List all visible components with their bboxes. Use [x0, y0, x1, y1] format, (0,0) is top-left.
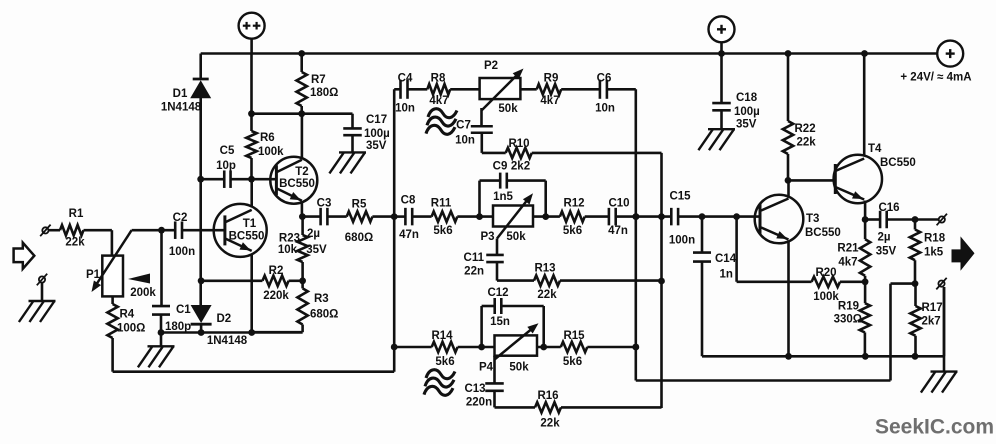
svg-text:R5: R5 [352, 199, 367, 211]
svg-text:100µ: 100µ [734, 106, 760, 118]
svg-text:R8: R8 [431, 73, 446, 85]
svg-text:100n: 100n [169, 246, 195, 258]
svg-text:R11: R11 [431, 198, 452, 210]
svg-text:C16: C16 [878, 202, 899, 214]
svg-text:P4: P4 [479, 362, 494, 374]
svg-text:35V: 35V [736, 119, 757, 131]
svg-text:1N4148: 1N4148 [207, 335, 248, 347]
svg-text:C15: C15 [669, 191, 691, 203]
svg-text:C1: C1 [176, 304, 191, 316]
svg-text:C3: C3 [317, 198, 332, 210]
svg-text:100µ: 100µ [364, 128, 390, 140]
svg-text:C7: C7 [456, 120, 471, 132]
svg-text:R16: R16 [537, 390, 558, 402]
svg-text:BC550: BC550 [805, 227, 841, 239]
svg-text:10n: 10n [595, 103, 615, 115]
svg-text:C17: C17 [366, 114, 387, 126]
svg-text:C11: C11 [464, 252, 485, 264]
svg-text:1N4148: 1N4148 [161, 102, 202, 114]
svg-text:10n: 10n [395, 103, 415, 115]
svg-text:22k: 22k [797, 137, 817, 149]
svg-text:R3: R3 [314, 293, 329, 305]
svg-text:1n5: 1n5 [493, 191, 513, 203]
svg-text:D1: D1 [173, 88, 188, 100]
svg-text:T2: T2 [295, 166, 308, 178]
svg-text:C6: C6 [597, 73, 612, 85]
svg-text:35V: 35V [876, 246, 897, 258]
svg-text:50k: 50k [509, 362, 529, 374]
svg-text:50k: 50k [498, 103, 518, 115]
svg-text:330Ω: 330Ω [834, 314, 862, 326]
svg-text:47n: 47n [608, 225, 628, 237]
svg-text:4k7: 4k7 [838, 257, 857, 269]
svg-text:680Ω: 680Ω [345, 232, 373, 244]
svg-text:5k6: 5k6 [563, 225, 582, 237]
svg-text:C4: C4 [398, 73, 413, 85]
svg-text:R18: R18 [924, 233, 946, 245]
svg-text:BC550: BC550 [880, 157, 916, 169]
svg-text:C5: C5 [220, 145, 235, 157]
svg-text:D2: D2 [217, 313, 232, 325]
svg-text:R2: R2 [269, 265, 284, 277]
svg-text:R10: R10 [508, 138, 529, 150]
svg-text:100k: 100k [258, 146, 284, 158]
svg-text:5k6: 5k6 [435, 356, 454, 368]
svg-text:R7: R7 [311, 74, 326, 86]
svg-text:+ 24V/ ≈ 4mA: + 24V/ ≈ 4mA [900, 72, 971, 84]
svg-text:50k: 50k [506, 231, 526, 243]
svg-text:10k: 10k [278, 244, 298, 256]
svg-text:C18: C18 [736, 92, 758, 104]
svg-text:5k6: 5k6 [433, 225, 452, 237]
svg-text:R6: R6 [260, 132, 275, 144]
svg-text:C14: C14 [715, 253, 737, 265]
svg-text:P3: P3 [480, 231, 494, 243]
svg-text:1k5: 1k5 [924, 247, 944, 259]
svg-text:R17: R17 [922, 302, 943, 314]
svg-text:R15: R15 [563, 330, 585, 342]
svg-text:T3: T3 [806, 213, 819, 225]
svg-text:R22: R22 [795, 123, 816, 135]
svg-text:C10: C10 [608, 198, 629, 210]
svg-text:P2: P2 [484, 60, 498, 72]
svg-text:C12: C12 [487, 287, 508, 299]
svg-text:T4: T4 [868, 143, 882, 155]
svg-text:SeekIC.com: SeekIC.com [875, 416, 994, 439]
svg-text:1n: 1n [720, 269, 733, 281]
svg-text:35V: 35V [366, 140, 387, 152]
svg-text:R4: R4 [120, 309, 135, 321]
svg-text:R23: R23 [279, 233, 300, 245]
svg-text:180Ω: 180Ω [310, 87, 338, 99]
svg-text:2µ: 2µ [877, 232, 890, 244]
svg-text:BC550: BC550 [229, 231, 265, 243]
svg-text:P1: P1 [86, 269, 101, 281]
svg-text:100Ω: 100Ω [117, 323, 145, 335]
svg-text:680Ω: 680Ω [310, 309, 338, 321]
svg-text:C8: C8 [401, 195, 416, 207]
svg-text:C13: C13 [464, 383, 485, 395]
svg-text:200k: 200k [130, 287, 156, 299]
svg-text:R21: R21 [837, 243, 859, 255]
svg-text:R9: R9 [544, 73, 559, 85]
svg-text:10n: 10n [455, 135, 475, 147]
svg-text:4k7: 4k7 [540, 95, 559, 107]
svg-text:R14: R14 [431, 330, 453, 342]
svg-text:22n: 22n [464, 266, 484, 278]
svg-text:22k: 22k [65, 237, 85, 249]
svg-text:R19: R19 [838, 301, 859, 313]
svg-text:C2: C2 [173, 212, 188, 224]
svg-text:100k: 100k [813, 291, 839, 303]
svg-text:35V: 35V [306, 244, 327, 256]
svg-text:R12: R12 [563, 198, 584, 210]
svg-text:15n: 15n [490, 316, 510, 328]
svg-text:4k7: 4k7 [429, 95, 448, 107]
svg-text:R1: R1 [69, 208, 84, 220]
svg-text:100n: 100n [669, 235, 695, 247]
svg-text:5k6: 5k6 [563, 356, 582, 368]
svg-text:220n: 220n [466, 397, 492, 409]
svg-text:2µ: 2µ [307, 228, 320, 240]
svg-text:T1: T1 [243, 218, 257, 230]
svg-text:2k2: 2k2 [511, 161, 530, 173]
svg-text:2k7: 2k7 [922, 316, 941, 328]
svg-text:22k: 22k [537, 289, 557, 301]
svg-text:C9: C9 [493, 161, 508, 173]
svg-text:180p: 180p [165, 321, 191, 333]
svg-text:22k: 22k [540, 418, 560, 430]
svg-text:R13: R13 [534, 263, 555, 275]
svg-text:220k: 220k [263, 290, 289, 302]
svg-text:R20: R20 [815, 267, 836, 279]
svg-text:47n: 47n [399, 229, 419, 241]
svg-text:BC550: BC550 [279, 178, 315, 190]
svg-text:10p: 10p [216, 160, 236, 172]
